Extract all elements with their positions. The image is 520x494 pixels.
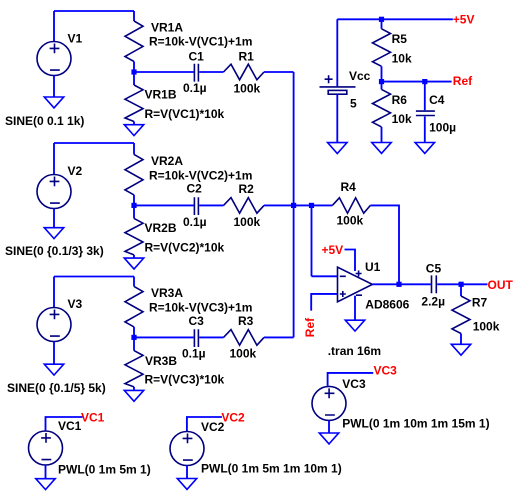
wire VR1A bottom lead [133, 62, 135, 73]
svg-text:VR2A: VR2A [151, 154, 183, 168]
svg-text:R=10k-V(VC2)+1m: R=10k-V(VC2)+1m [149, 169, 252, 183]
wire opamp V+ supply [345, 250, 356, 272]
wire node2 to C2 [134, 204, 194, 206]
wire +5V rail [337, 18, 453, 20]
wire node1 to C1 [134, 71, 194, 73]
wire C1 to R1 [199, 71, 223, 73]
svg-text:VC3: VC3 [374, 364, 398, 378]
wire battery bottom [336, 94, 338, 142]
node output junction [396, 282, 401, 287]
svg-text:R=10k-V(VC3)+1m: R=10k-V(VC3)+1m [149, 300, 252, 314]
wire V3 bottom [53, 342, 55, 365]
wire V2 top stub [53, 143, 55, 175]
svg-text:0.1µ: 0.1µ [182, 347, 206, 361]
voltage source V1 [37, 42, 71, 76]
svg-text:+5V: +5V [322, 243, 344, 257]
wire summing vertical [293, 72, 295, 337]
ground battery [328, 143, 347, 154]
svg-text:2.2µ: 2.2µ [421, 294, 445, 308]
svg-text:PWL(0 1m 10m 1m 15m 1): PWL(0 1m 10m 1m 15m 1) [342, 416, 489, 430]
wire R4 to output [370, 205, 399, 284]
svg-text:VR1A: VR1A [151, 21, 183, 35]
wire VC2 bottom [186, 466, 188, 479]
svg-text:VC1: VC1 [81, 410, 105, 424]
op-amp U1 [338, 267, 373, 302]
wire VC3 flag [328, 373, 374, 386]
node summing junction [291, 203, 296, 208]
svg-text:R=V(VC3)*10k: R=V(VC3)*10k [145, 373, 225, 387]
svg-text:C2: C2 [187, 182, 203, 196]
svg-text:100µ: 100µ [429, 121, 456, 135]
wire V1 bottom [53, 76, 55, 98]
svg-text:PWL(0 1m 5m 1m 10m 1): PWL(0 1m 5m 1m 10m 1) [201, 462, 342, 476]
svg-text:R3: R3 [238, 314, 254, 328]
wire top rail section3 [54, 276, 134, 278]
svg-text:PWL(0 1m 5m 1): PWL(0 1m 5m 1) [58, 462, 151, 476]
wire C4 top lead [424, 82, 426, 111]
svg-text:V1: V1 [68, 31, 83, 45]
ground VC1 [36, 479, 55, 490]
svg-text:VR3B: VR3B [145, 354, 177, 368]
battery Vcc [320, 75, 356, 94]
svg-text:R2: R2 [239, 182, 255, 196]
wire VR2A bottom lead [133, 195, 135, 206]
node section3 [131, 335, 136, 340]
svg-text:100k: 100k [234, 81, 261, 95]
resistor VR3B [125, 351, 143, 387]
wire inverting input vertical [311, 205, 313, 276]
voltage source VC3 [312, 386, 346, 420]
wire VC3 bottom [328, 420, 330, 433]
svg-text:SINE(0 {0.1/3} 3k): SINE(0 {0.1/3} 3k) [5, 244, 104, 258]
node section2 [131, 203, 136, 208]
svg-text:0.1µ: 0.1µ [183, 215, 207, 229]
svg-text:U1: U1 [365, 260, 381, 274]
svg-text:SINE(0 0.1 1k): SINE(0 0.1 1k) [5, 114, 84, 128]
wire top rail section1 [54, 10, 134, 12]
wire VR2A top lead [133, 143, 135, 154]
resistor VR2A [125, 154, 143, 195]
wire VR2B top lead [133, 205, 135, 218]
ground VC3 [319, 433, 338, 444]
wire top rail section2 [54, 142, 134, 144]
svg-text:AD8606: AD8606 [365, 297, 409, 311]
ground R7 [451, 344, 470, 355]
node R5 R6 junction [379, 79, 384, 84]
wire R6 bottom lead [381, 127, 383, 143]
svg-text:V3: V3 [68, 297, 83, 311]
svg-text:Ref: Ref [453, 74, 473, 88]
wire inverting input horizontal [312, 275, 338, 277]
ground V1 [44, 97, 63, 108]
svg-text:Ref: Ref [303, 317, 317, 337]
resistor VR3A [125, 286, 143, 327]
svg-text:VC3: VC3 [342, 377, 366, 391]
wire R3 output [264, 336, 294, 338]
wire VR3A top lead [133, 277, 135, 287]
wire R6 top lead [381, 82, 383, 90]
ground opamp [345, 320, 364, 331]
wire VR3B bottom lead [133, 387, 135, 391]
ground R6 [372, 143, 391, 154]
svg-text:VC2: VC2 [221, 410, 245, 424]
voltage source VC2 [170, 432, 204, 466]
svg-text:R=10k-V(VC1)+1m: R=10k-V(VC1)+1m [149, 34, 252, 48]
svg-text:R4: R4 [341, 180, 357, 194]
wire V1 top stub [53, 11, 55, 42]
svg-text:100k: 100k [337, 214, 364, 228]
ground V2 [44, 228, 63, 239]
resistor R4 [332, 198, 370, 213]
resistor R5 [373, 29, 391, 67]
node section1 [131, 69, 136, 74]
capacitor C2 [194, 197, 198, 215]
wire VR3A bottom lead [133, 327, 135, 338]
svg-text:VR1B: VR1B [145, 88, 177, 102]
node OUT junction [459, 282, 464, 287]
node inverting branch [309, 203, 314, 208]
wire C5 to OUT [437, 283, 487, 285]
wire VC2 flag [187, 417, 222, 431]
svg-text:VR2B: VR2B [145, 221, 177, 235]
svg-text:100k: 100k [230, 347, 257, 361]
voltage source VC1 [29, 431, 63, 465]
svg-text:VR3A: VR3A [151, 286, 183, 300]
ground VC2 [177, 479, 196, 490]
svg-text:R=V(VC2)*10k: R=V(VC2)*10k [145, 240, 225, 254]
wire C3 to R3 [199, 336, 223, 338]
voltage source V3 [37, 308, 71, 342]
ground VR3B [124, 390, 143, 401]
node +5V rail [379, 17, 384, 22]
capacitor C4 [416, 111, 435, 115]
svg-text:Vcc: Vcc [349, 69, 371, 83]
ground VR1B [124, 125, 143, 136]
wire R5 top lead [381, 19, 383, 29]
svg-text:VC1: VC1 [58, 419, 82, 433]
svg-text:C3: C3 [189, 314, 205, 328]
svg-text:+5V: +5V [453, 12, 475, 26]
svg-text:VC2: VC2 [201, 420, 225, 434]
wire V2 bottom [53, 209, 55, 228]
svg-text:5: 5 [350, 96, 357, 110]
ground C4 [415, 143, 434, 154]
resistor VR1A [125, 21, 143, 62]
wire opamp V- supply [354, 296, 356, 321]
svg-text:0.1µ: 0.1µ [183, 81, 207, 95]
svg-text:C1: C1 [189, 49, 205, 63]
resistor R7 [452, 296, 470, 334]
wire VR1B bottom lead [133, 122, 135, 125]
svg-text:100k: 100k [473, 319, 500, 333]
wire VR1A top lead [133, 11, 135, 21]
wire R7 bottom lead [460, 334, 462, 345]
wire noninverting input [311, 294, 337, 311]
resistor VR1B [125, 85, 143, 122]
wire R1 output [264, 71, 294, 73]
wire C4 bottom lead [424, 116, 426, 142]
svg-text:10k: 10k [392, 112, 412, 126]
wire V3 top stub [53, 277, 55, 308]
wire C2 to R2 [199, 204, 223, 206]
svg-text:C4: C4 [429, 93, 445, 107]
capacitor C1 [194, 64, 198, 82]
svg-text:OUT: OUT [488, 278, 514, 292]
capacitor C3 [194, 329, 198, 347]
svg-text:R7: R7 [472, 296, 488, 310]
wire Ref rail [382, 81, 452, 83]
wire R2 output to R4 [264, 204, 332, 206]
resistor VR2B [125, 218, 143, 255]
resistor R6 [373, 89, 391, 127]
wire VR1B top lead [133, 72, 135, 85]
resistor R2 [224, 198, 265, 214]
svg-text:100k: 100k [234, 215, 261, 229]
svg-text:SINE(0 {0.1/5} 5k): SINE(0 {0.1/5} 5k) [7, 381, 106, 395]
wire VC1 bottom [45, 465, 47, 479]
resistor R1 [224, 64, 265, 80]
svg-text:C5: C5 [426, 261, 442, 275]
wire R7 top lead [460, 284, 462, 296]
svg-text:R5: R5 [392, 32, 408, 46]
wire opamp output [372, 283, 430, 285]
capacitor C5 [432, 275, 437, 293]
voltage source V2 [37, 175, 71, 209]
svg-text:V2: V2 [68, 164, 83, 178]
wire VC1 flag [46, 417, 83, 431]
wire VR3B top lead [133, 337, 135, 350]
wire node3 to C3 [134, 336, 194, 338]
svg-text:R=V(VC1)*10k: R=V(VC1)*10k [145, 107, 225, 121]
svg-text:.tran 16m: .tran 16m [328, 344, 381, 358]
ground V3 [44, 364, 63, 375]
svg-text:R1: R1 [239, 49, 255, 63]
wire VR2B bottom lead [133, 255, 135, 258]
svg-text:10k: 10k [392, 51, 412, 65]
wire R5 bottom lead [381, 66, 383, 81]
node C4 junction [422, 79, 427, 84]
resistor R3 [224, 330, 265, 346]
svg-text:R6: R6 [392, 93, 408, 107]
ground VR2B [124, 258, 143, 269]
wire battery top [336, 19, 338, 87]
